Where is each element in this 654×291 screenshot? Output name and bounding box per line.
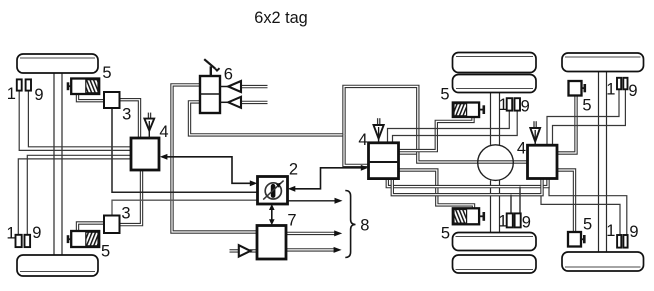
svg-text:5: 5 <box>440 86 449 104</box>
svg-text:4: 4 <box>358 131 367 149</box>
svg-text:9: 9 <box>629 223 638 241</box>
svg-text:1: 1 <box>7 85 16 103</box>
svg-text:6x2 tag: 6x2 tag <box>254 9 308 27</box>
svg-text:3: 3 <box>122 106 131 124</box>
svg-text:1: 1 <box>606 81 615 99</box>
svg-text:1: 1 <box>498 213 507 231</box>
svg-text:4: 4 <box>159 123 168 141</box>
svg-text:5: 5 <box>582 97 591 115</box>
svg-text:1: 1 <box>6 225 15 243</box>
svg-text:8: 8 <box>360 217 369 235</box>
svg-text:9: 9 <box>34 86 43 104</box>
svg-text:9: 9 <box>521 98 530 116</box>
svg-text:7: 7 <box>287 212 296 230</box>
svg-text:5: 5 <box>583 216 592 234</box>
svg-text:9: 9 <box>32 224 41 242</box>
svg-text:1: 1 <box>499 96 508 114</box>
svg-text:5: 5 <box>102 64 111 82</box>
svg-text:5: 5 <box>441 225 450 243</box>
svg-text:6: 6 <box>224 66 233 84</box>
svg-text:9: 9 <box>522 214 531 232</box>
svg-text:4: 4 <box>517 140 526 158</box>
svg-text:1: 1 <box>606 222 615 240</box>
svg-text:3: 3 <box>121 205 130 223</box>
svg-text:5: 5 <box>101 243 110 261</box>
svg-text:9: 9 <box>628 82 637 100</box>
svg-text:2: 2 <box>289 161 298 179</box>
